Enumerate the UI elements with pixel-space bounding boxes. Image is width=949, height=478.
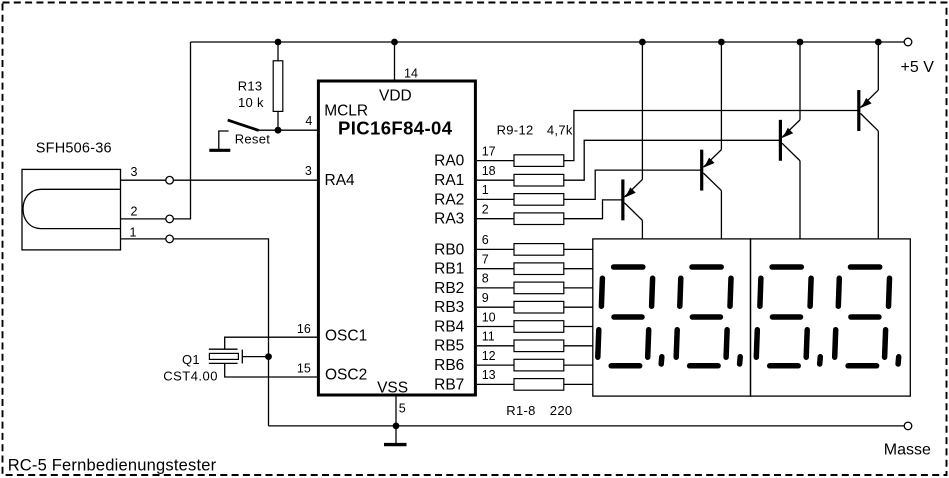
wire resonator to ground riser	[242, 356, 268, 358]
wire RB4 to display	[564, 326, 593, 328]
resistor R2	[514, 263, 564, 275]
IR receiver SFH506-36	[22, 141, 121, 250]
svg-text:2: 2	[482, 203, 489, 217]
node rail-R13 junction	[275, 39, 282, 46]
7-segment digit 3	[756, 267, 820, 366]
display DIS1 (2-digit 7-segment)	[593, 239, 751, 396]
svg-text:13: 13	[482, 368, 496, 382]
wire RA1 to transistor base	[564, 140, 781, 180]
svg-text:3: 3	[131, 165, 138, 179]
svg-text:VDD: VDD	[379, 87, 412, 104]
wire OSC1	[225, 337, 318, 349]
svg-text:RB3: RB3	[434, 299, 464, 316]
wire RB3 to display	[564, 306, 593, 308]
display DIS2 (2-digit 7-segment)	[751, 239, 911, 396]
pin 9 RB3	[434, 291, 514, 316]
pin 1 RA2	[434, 183, 514, 208]
svg-text:RB0: RB0	[434, 241, 465, 258]
resistor R11	[514, 194, 564, 206]
svg-text:SFH506-36: SFH506-36	[36, 141, 112, 157]
wire +5V rail	[191, 41, 905, 43]
pin 18 RA1	[434, 164, 514, 189]
pin 11 RB5	[434, 330, 514, 355]
wire RB0 to display	[564, 248, 593, 250]
transistor Q5 (PNP)	[859, 39, 882, 239]
svg-text:10 k: 10 k	[238, 95, 264, 110]
resistor R10	[514, 174, 564, 186]
transistor Q4 (PNP)	[780, 39, 803, 239]
wire left riser (SFH pin2 to rail)	[174, 42, 191, 219]
wire VSS pin 5	[395, 395, 397, 426]
svg-text:15: 15	[297, 362, 311, 376]
svg-text:6: 6	[482, 233, 489, 247]
node resonator junction	[265, 353, 272, 360]
pin 6 RB0	[434, 233, 514, 258]
svg-text:1: 1	[482, 183, 489, 197]
svg-text:Masse: Masse	[884, 441, 931, 458]
wire SFH pin2	[121, 218, 166, 220]
wire RA0 to transistor base	[564, 111, 859, 161]
svg-text:RA1: RA1	[434, 172, 464, 189]
svg-text:220: 220	[550, 403, 573, 418]
wire R13 to MCLR node	[277, 111, 279, 130]
switch Reset arm	[228, 120, 259, 130]
svg-text:5: 5	[399, 401, 406, 415]
resistor R12	[514, 213, 564, 225]
svg-text:CST4.00: CST4.00	[163, 368, 218, 383]
wire rail to R13	[277, 42, 279, 61]
svg-text:RA4: RA4	[325, 172, 356, 189]
svg-text:PIC16F84-04: PIC16F84-04	[338, 117, 453, 138]
terminal pin2	[166, 215, 174, 223]
svg-text:4,7k: 4,7k	[547, 122, 573, 137]
svg-text:1: 1	[130, 225, 137, 239]
svg-text:RB6: RB6	[434, 357, 464, 374]
svg-text:OSC2: OSC2	[325, 366, 367, 383]
svg-text:R13: R13	[238, 79, 263, 94]
terminal +5V	[904, 38, 912, 46]
node VSS junction	[393, 423, 400, 430]
svg-text:RA0: RA0	[434, 153, 465, 170]
resistor R9	[514, 155, 564, 167]
wire SFH pin1	[121, 238, 166, 240]
wire OSC2	[225, 363, 318, 377]
switch Reset contact	[219, 131, 229, 150]
svg-text:16: 16	[297, 322, 311, 336]
svg-text:RC-5 Fernbedienungstester: RC-5 Fernbedienungstester	[8, 457, 217, 475]
resistor R13	[238, 61, 283, 112]
svg-text:R9-12: R9-12	[497, 122, 534, 137]
pin 13 RB7	[434, 368, 514, 393]
wire pin1 to ground riser	[174, 239, 269, 426]
svg-text:12: 12	[482, 349, 496, 363]
node MCLR junction	[275, 127, 282, 134]
terminal pin1	[166, 235, 174, 243]
resistor R8	[514, 379, 564, 391]
op-amp U1 PIC16F84-04 body	[318, 81, 475, 395]
wire RB5 to display	[564, 345, 593, 347]
svg-text:RA3: RA3	[434, 211, 464, 228]
wire RB1 to display	[564, 268, 593, 270]
resistor R4	[514, 301, 564, 313]
wire RA2 to transistor base	[564, 170, 702, 199]
ground (VSS)	[395, 426, 397, 443]
pin 10 RB4	[434, 310, 514, 335]
ground (reset)	[209, 149, 230, 152]
svg-text:RB7: RB7	[434, 376, 464, 393]
terminal Masse	[904, 422, 912, 430]
svg-text:VSS: VSS	[377, 379, 408, 396]
wire RB6 to display	[564, 364, 593, 366]
svg-text:2: 2	[131, 204, 138, 218]
resistor R6	[514, 340, 564, 352]
terminal pin3	[166, 176, 174, 184]
7-segment digit 2	[676, 267, 740, 366]
resistor R7	[514, 359, 564, 371]
transistor Q2 (PNP)	[623, 39, 646, 239]
pin 8 RB2	[434, 272, 514, 297]
wire RB7 to display	[564, 383, 593, 385]
resistor R3	[514, 282, 564, 294]
svg-text:14: 14	[404, 66, 418, 80]
svg-text:18: 18	[482, 164, 496, 178]
svg-text:4: 4	[305, 114, 312, 128]
resistor R5	[514, 321, 564, 333]
pin 12 RB6	[434, 349, 514, 374]
svg-text:Reset: Reset	[235, 132, 271, 147]
svg-text:17: 17	[482, 144, 496, 158]
pin 7 RB1	[434, 253, 514, 278]
svg-text:RA2: RA2	[434, 191, 464, 208]
svg-text:10: 10	[482, 310, 496, 324]
transistor Q3 (PNP)	[702, 39, 725, 239]
7-segment digit 4	[835, 267, 899, 366]
resonator Q1 CST4.00	[163, 349, 242, 383]
wire RA3 to transistor base	[564, 200, 623, 219]
svg-text:OSC1: OSC1	[325, 327, 367, 344]
pin 2 RA3	[434, 203, 514, 228]
wire pin3 to RA4	[174, 179, 318, 181]
wire RB2 to display	[564, 287, 593, 289]
svg-text:3: 3	[305, 164, 312, 178]
7-segment digit 1	[598, 267, 662, 366]
svg-text:Q1: Q1	[182, 352, 200, 367]
wire ground rail (Masse)	[269, 425, 905, 427]
svg-text:8: 8	[482, 272, 489, 286]
pin 17 RA0	[434, 144, 514, 169]
svg-text:+5 V: +5 V	[901, 59, 935, 76]
wire VDD pin 14	[394, 42, 396, 81]
resistor R1	[514, 244, 564, 256]
svg-text:R1-8: R1-8	[506, 403, 535, 418]
svg-text:RB5: RB5	[434, 338, 464, 355]
svg-text:RB1: RB1	[434, 261, 464, 278]
svg-text:11: 11	[482, 330, 495, 344]
svg-text:RB2: RB2	[434, 280, 464, 297]
svg-text:7: 7	[482, 253, 489, 267]
wire SFH pin3	[121, 179, 166, 181]
svg-text:9: 9	[482, 291, 489, 305]
wire MCLR pin 4	[259, 129, 318, 131]
svg-text:RB4: RB4	[434, 318, 465, 335]
